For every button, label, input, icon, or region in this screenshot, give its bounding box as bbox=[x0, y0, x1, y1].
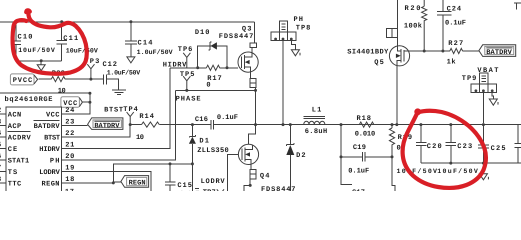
testpoint TP5 bbox=[180, 71, 195, 91]
svg-text:REGN: REGN bbox=[42, 180, 60, 188]
wire LODRV bottom fragment bbox=[195, 188, 199, 190]
svg-text:TP8: TP8 bbox=[296, 25, 311, 33]
capacitor C12 bbox=[103, 61, 141, 85]
resistor R22 bbox=[51, 70, 65, 96]
node C19 bottom corner bbox=[340, 155, 343, 158]
svg-text:L1: L1 bbox=[312, 107, 322, 115]
node TP5 bbox=[185, 89, 188, 92]
svg-text:1k: 1k bbox=[447, 58, 456, 67]
svg-text:LODRV: LODRV bbox=[201, 178, 226, 186]
svg-text:VCC: VCC bbox=[46, 111, 60, 119]
svg-text:C12: C12 bbox=[103, 61, 118, 69]
MOSFET Q3 FDS8447 bbox=[219, 22, 258, 125]
svg-text:10: 10 bbox=[58, 87, 66, 95]
svg-text:C15: C15 bbox=[177, 182, 192, 190]
svg-text:BATDRV: BATDRV bbox=[94, 122, 120, 130]
resistor R27 bbox=[447, 40, 464, 67]
svg-text:ACDRV: ACDRV bbox=[8, 134, 32, 142]
svg-text:TTC: TTC bbox=[8, 180, 22, 188]
svg-text:C19: C19 bbox=[353, 144, 366, 152]
svg-text:BTST: BTST bbox=[44, 134, 60, 142]
resistor R18 bbox=[355, 115, 376, 139]
svg-text:REGN: REGN bbox=[129, 180, 146, 188]
pin ACN bbox=[0, 113, 6, 115]
REGN net wire bbox=[113, 164, 192, 191]
node TP9/C25 bbox=[482, 123, 485, 126]
corner fragment top right bbox=[514, 3, 521, 9]
svg-text:0.1uF: 0.1uF bbox=[348, 167, 369, 175]
node C19/R19 bottom bbox=[391, 155, 394, 158]
svg-text:PHASE: PHASE bbox=[176, 96, 201, 104]
svg-text:STAT1: STAT1 bbox=[8, 157, 30, 165]
capacitor C16 bbox=[195, 114, 238, 129]
svg-text:10uF/50V: 10uF/50V bbox=[437, 168, 478, 175]
node cap gnd bbox=[40, 59, 43, 62]
pin STAT1 bbox=[0, 159, 6, 161]
svg-text:10uF/50V: 10uF/50V bbox=[66, 48, 98, 55]
svg-text:Q5: Q5 bbox=[374, 59, 384, 67]
wire R22 to C12 bbox=[65, 78, 103, 80]
svg-text:ACP: ACP bbox=[8, 123, 22, 131]
svg-text:SI4401BDY: SI4401BDY bbox=[347, 49, 389, 57]
svg-text:C14: C14 bbox=[138, 40, 153, 48]
node C15 tap bbox=[169, 162, 172, 165]
svg-text:TP7: TP7 bbox=[203, 189, 216, 191]
capacitor C24 bbox=[437, 0, 466, 51]
node TP8 bbox=[282, 123, 285, 126]
svg-text:1.0uF/50V: 1.0uF/50V bbox=[137, 49, 173, 56]
svg-text:PVCC: PVCC bbox=[13, 77, 33, 85]
internals bbox=[240, 56, 242, 68]
svg-text:0.1uF: 0.1uF bbox=[445, 20, 466, 28]
svg-text:ZLLS350: ZLLS350 bbox=[197, 147, 229, 155]
node TP3 bbox=[89, 78, 92, 81]
svg-text:bq24610RGE: bq24610RGE bbox=[5, 95, 53, 104]
svg-text:CE: CE bbox=[8, 146, 18, 154]
node BTST bbox=[129, 123, 132, 126]
testpoint TP9 VBAT bbox=[462, 67, 499, 123]
red annotation loop around C20/C23 bbox=[403, 111, 486, 188]
capacitor C20 bbox=[397, 123, 442, 175]
red annotation loop around C10/C11 bbox=[13, 10, 87, 73]
svg-text:LODRV: LODRV bbox=[39, 169, 60, 177]
svg-text:C24: C24 bbox=[447, 5, 462, 13]
power flag PVCC bbox=[10, 74, 37, 85]
svg-text:1.0uF/50V: 1.0uF/50V bbox=[107, 70, 141, 77]
svg-text:R20: R20 bbox=[405, 5, 421, 13]
node C23 gnd bbox=[449, 162, 452, 165]
MOSFET Q4 FDS8447 bbox=[238, 125, 295, 195]
IC body bbox=[6, 107, 62, 197]
resistor R17 bbox=[206, 65, 221, 89]
testpoint TP3 bbox=[84, 58, 99, 79]
node R20 bottom bbox=[423, 50, 426, 53]
capacitor C10 bbox=[11, 22, 55, 61]
svg-text:PH: PH bbox=[294, 16, 304, 24]
svg-text:10uF/50V: 10uF/50V bbox=[18, 47, 55, 54]
diode D2 bbox=[286, 123, 305, 191]
ground below C10/C11 bbox=[37, 61, 45, 71]
svg-text:R18: R18 bbox=[357, 115, 372, 123]
node PHASE at Q3/Q4 bbox=[254, 123, 257, 126]
svg-text:10uF/50V: 10uF/50V bbox=[397, 168, 438, 175]
node C19 tap bbox=[340, 123, 343, 126]
svg-text:PH: PH bbox=[50, 157, 60, 165]
wire output gnd rail bbox=[421, 162, 521, 164]
node Q3 source / PH bbox=[254, 89, 257, 92]
resistor R20 bbox=[404, 0, 427, 51]
wire C16 to PHASE bbox=[214, 124, 521, 126]
node D10 left bbox=[196, 66, 199, 69]
svg-text:17: 17 bbox=[65, 189, 74, 192]
node rail-C10 bbox=[15, 20, 18, 23]
pin TS bbox=[0, 170, 6, 172]
capacitor edge clipped bbox=[515, 125, 521, 164]
pin 19 stub LODRV wire bbox=[61, 171, 150, 191]
svg-text:D10: D10 bbox=[195, 29, 210, 37]
node D10 right bbox=[226, 66, 229, 69]
body circle bbox=[238, 52, 258, 72]
node Q5 out bbox=[395, 123, 398, 126]
svg-text:1.0uF: 1.0uF bbox=[180, 191, 200, 192]
wire R14 to C16 bbox=[159, 124, 211, 126]
wire C10-C11 bottom bbox=[16, 60, 62, 62]
net flag BATDRV right bbox=[479, 45, 516, 57]
node D1 cathode bbox=[191, 123, 194, 126]
inductor L1 bbox=[304, 107, 328, 136]
svg-text:C17: C17 bbox=[352, 189, 365, 191]
testpoint TP6 bbox=[178, 46, 193, 68]
svg-text:FDS8447: FDS8447 bbox=[219, 33, 254, 41]
wire HIDRV gate bbox=[170, 67, 238, 69]
testpoint TP8 PH bbox=[271, 16, 311, 125]
wire LODRV gate bbox=[227, 154, 238, 191]
capacitor C19 bbox=[341, 125, 392, 176]
resistor R14 bbox=[136, 113, 159, 142]
svg-text:BATDRV: BATDRV bbox=[486, 49, 512, 57]
source lead bbox=[249, 72, 251, 78]
svg-text:C20: C20 bbox=[427, 143, 442, 151]
node VCC flag tap bbox=[88, 101, 91, 104]
net flag REGN bbox=[121, 176, 149, 188]
wire BTST to R14 bbox=[130, 124, 141, 126]
svg-text:HIDRV: HIDRV bbox=[39, 146, 60, 154]
diode D1 ZLLS350 bbox=[189, 125, 229, 164]
pin 18 stub bbox=[61, 182, 113, 184]
svg-text:TS: TS bbox=[8, 169, 18, 177]
svg-text:6.8uH: 6.8uH bbox=[305, 128, 328, 136]
resistor R19 bbox=[389, 125, 412, 157]
svg-text:BATDRV: BATDRV bbox=[34, 123, 61, 131]
node REGN pin bbox=[112, 181, 115, 184]
svg-text:C23: C23 bbox=[457, 143, 472, 151]
svg-text:0: 0 bbox=[206, 82, 210, 90]
MOSFET Q5 SI4401BDY bbox=[347, 0, 450, 125]
node C25 gnd bbox=[482, 162, 485, 165]
wire PH to source node bbox=[175, 89, 255, 91]
node R19 tap bbox=[391, 123, 394, 126]
wire AVCC top bbox=[0, 92, 90, 94]
svg-text:C25: C25 bbox=[491, 145, 506, 153]
pin CE bbox=[0, 147, 6, 149]
svg-text:C10: C10 bbox=[18, 33, 33, 41]
drain from rail bbox=[254, 22, 256, 43]
svg-text:D2: D2 bbox=[296, 152, 306, 160]
capacitor C11 bbox=[57, 22, 98, 61]
svg-text:D1: D1 bbox=[199, 138, 209, 146]
wire C12 to gnd corner bbox=[106, 79, 118, 90]
net flag BATDRV at pin23 bbox=[88, 118, 123, 130]
svg-text:R14: R14 bbox=[139, 113, 154, 121]
node D1 anode bbox=[191, 162, 194, 165]
wire VCC vertical bbox=[61, 93, 90, 114]
wire snubber gnd bbox=[341, 157, 395, 191]
ground below C14 bbox=[127, 57, 135, 63]
pin 23 stub bbox=[61, 124, 87, 126]
wire PVCC to R22 bbox=[39, 78, 52, 80]
svg-text:FDS8447: FDS8447 bbox=[261, 186, 296, 191]
pin TTC bbox=[0, 182, 6, 184]
svg-text:C11: C11 bbox=[63, 35, 78, 43]
svg-text:TP9: TP9 bbox=[462, 75, 477, 83]
node C24 bottom bbox=[441, 50, 444, 53]
power flag VCC bbox=[61, 97, 83, 108]
diode D10 bbox=[195, 29, 227, 68]
node AVCC bbox=[88, 92, 91, 95]
svg-text:100k: 100k bbox=[404, 21, 422, 30]
pin numbers left clipped bbox=[0, 107, 1, 184]
pin 20 stub PH wire bbox=[61, 90, 175, 159]
svg-text:TP4: TP4 bbox=[123, 106, 138, 114]
pin ACP bbox=[0, 124, 6, 126]
svg-text:0.1uF: 0.1uF bbox=[217, 114, 238, 122]
svg-text:24: 24 bbox=[65, 107, 74, 115]
ground below output caps bbox=[479, 163, 488, 180]
pin ACDRV bbox=[0, 136, 6, 138]
svg-text:ACN: ACN bbox=[8, 111, 22, 119]
capacitor C14 bbox=[125, 22, 173, 57]
testpoint TP4 bbox=[123, 106, 138, 125]
svg-text:Q4: Q4 bbox=[260, 173, 270, 181]
svg-text:R27: R27 bbox=[448, 40, 463, 48]
svg-text:0: 0 bbox=[397, 145, 401, 153]
wire top rail VCC input bbox=[0, 21, 255, 23]
node rail-C14 bbox=[129, 20, 132, 23]
svg-text:TP5: TP5 bbox=[180, 71, 195, 79]
svg-text:C16: C16 bbox=[195, 116, 208, 124]
capacitor C25 bbox=[478, 125, 505, 164]
wire VCC flag dash bbox=[82, 101, 90, 103]
capacitor C15 bbox=[165, 164, 200, 199]
pin 22 stub wire to BTST node bbox=[61, 125, 130, 137]
node rail-C11 bbox=[60, 20, 63, 23]
wire R27 to flag bbox=[463, 50, 480, 52]
capacitor C23 bbox=[437, 123, 478, 175]
pin 21 stub HIDRV wire bbox=[61, 68, 169, 149]
svg-text:BTST: BTST bbox=[104, 106, 123, 114]
svg-text:10: 10 bbox=[136, 134, 144, 142]
ground below C12 bbox=[112, 90, 126, 95]
svg-text:0.010: 0.010 bbox=[355, 130, 376, 138]
